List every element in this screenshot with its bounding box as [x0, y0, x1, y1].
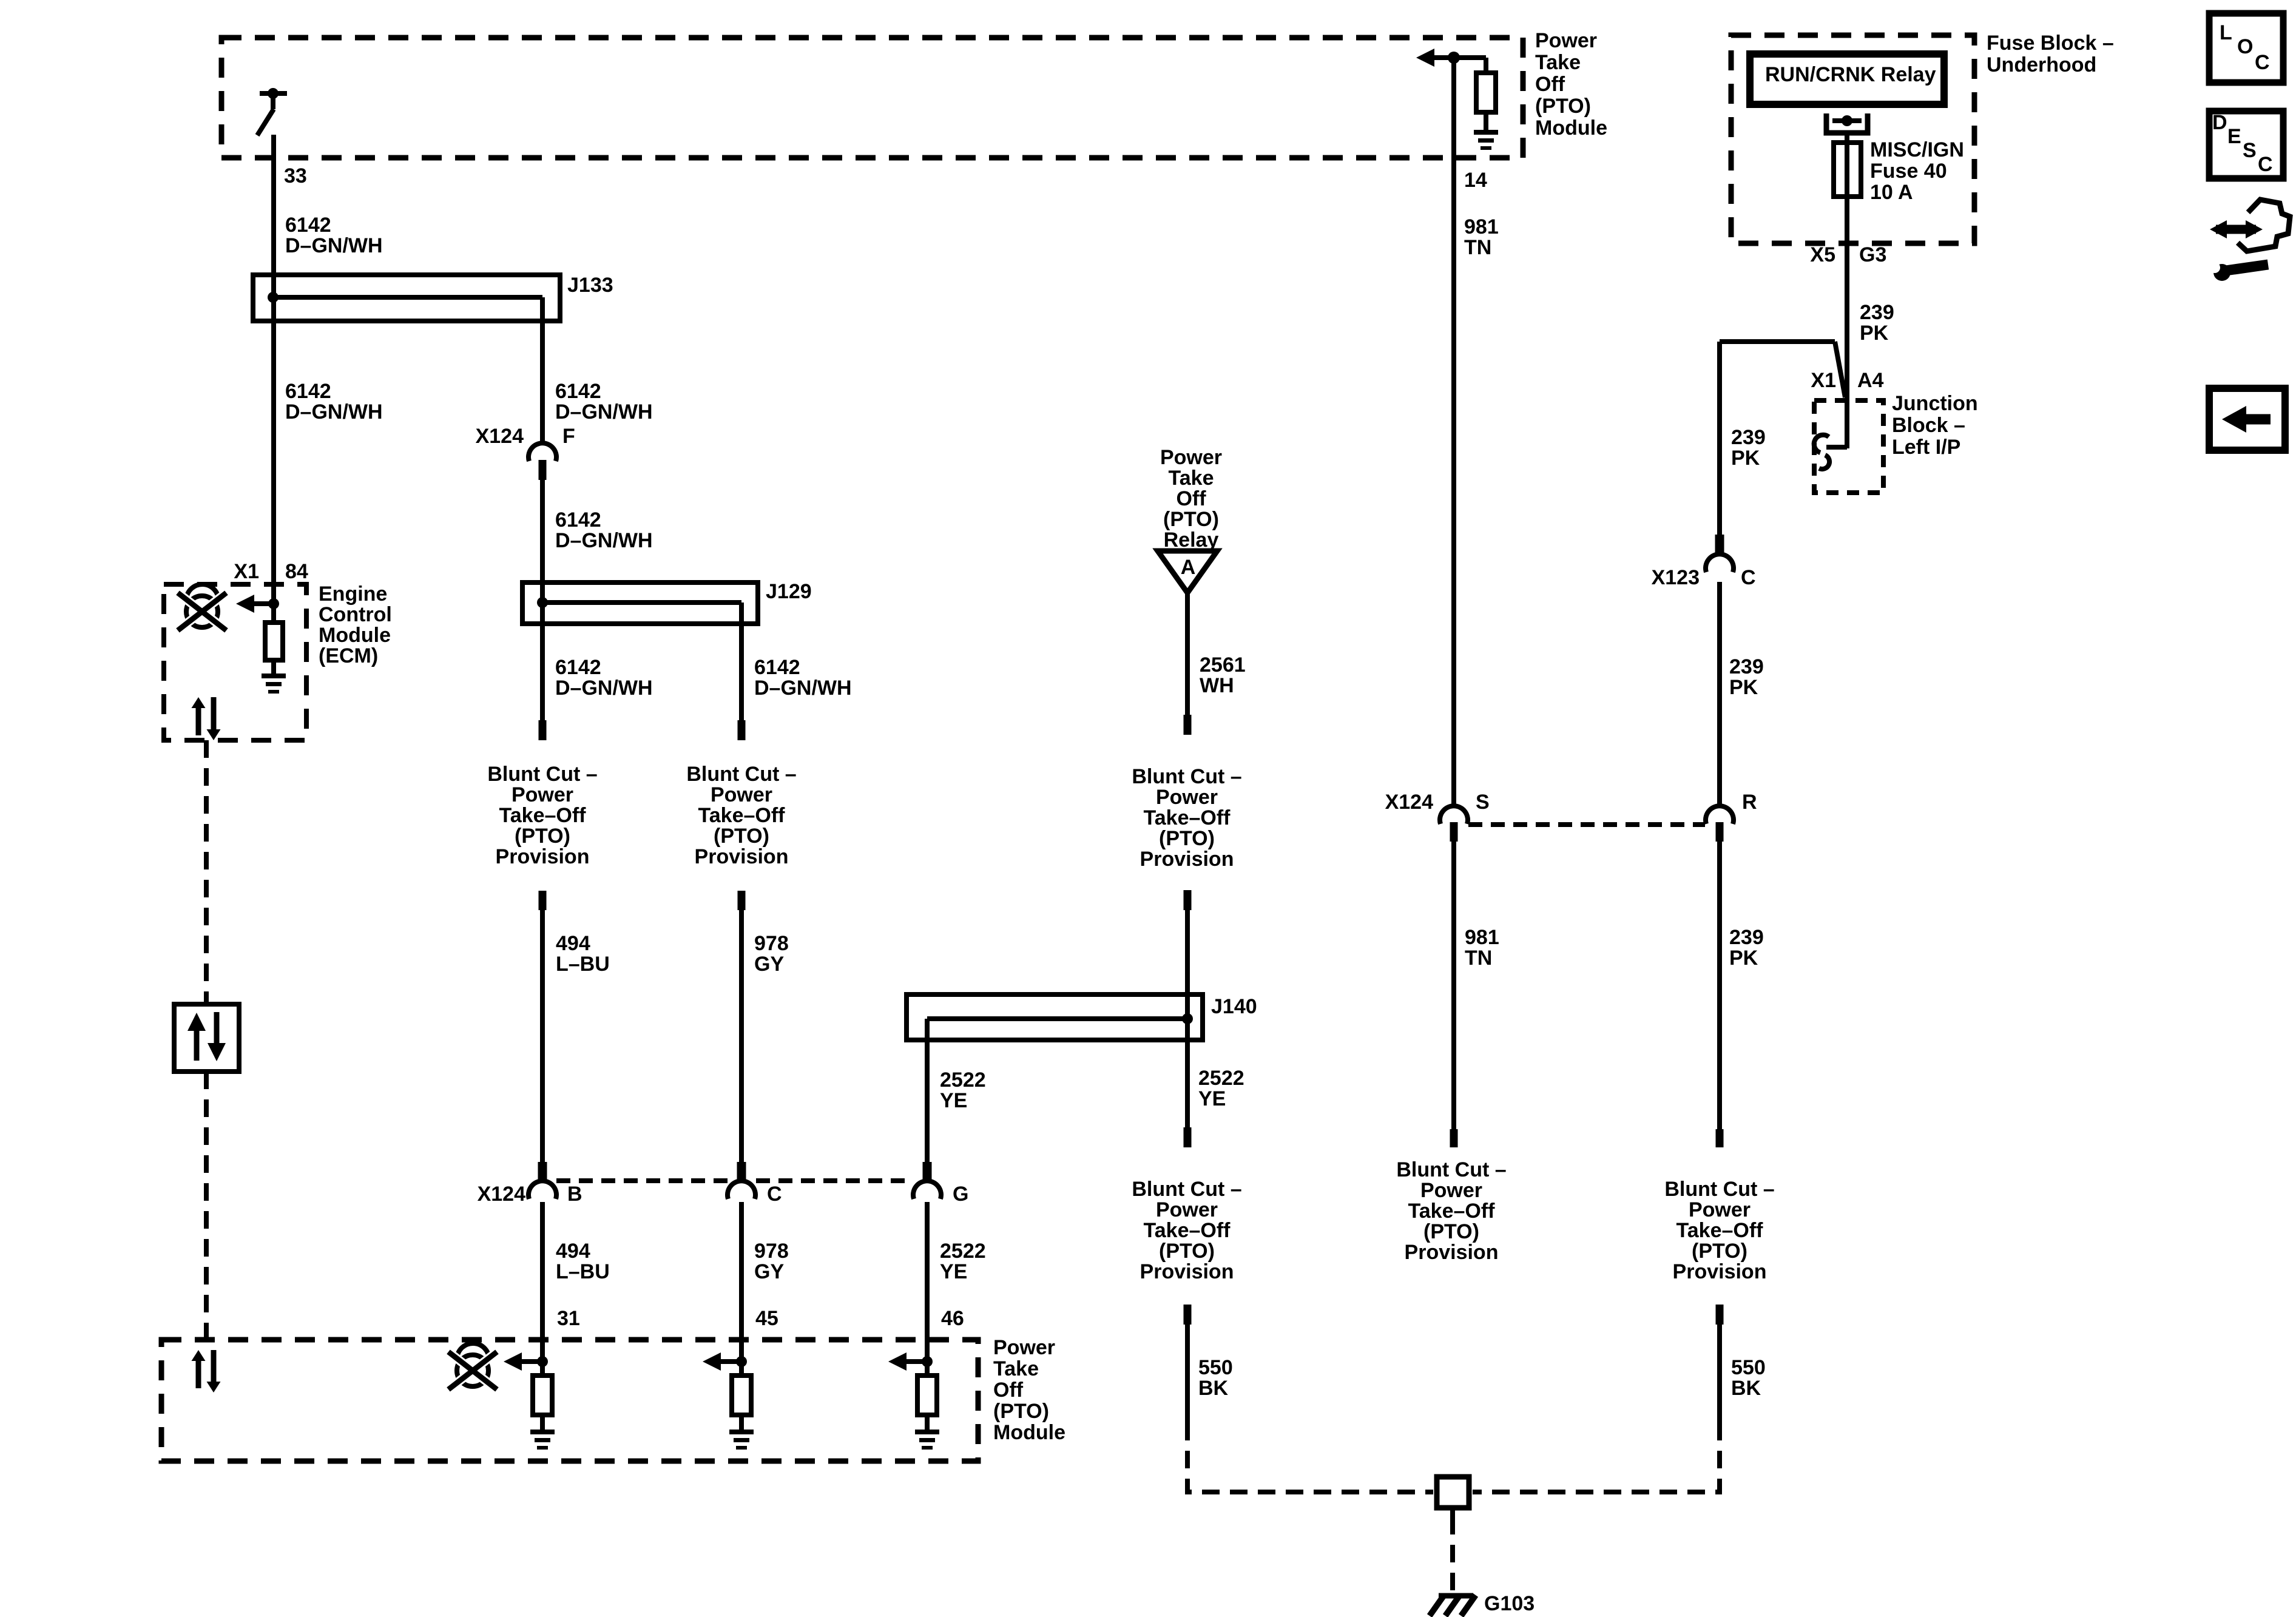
- svg-text:Power: Power: [1156, 1198, 1218, 1221]
- svg-text:B: B: [567, 1183, 582, 1206]
- svg-text:Provision: Provision: [1673, 1260, 1767, 1283]
- svg-text:Blunt Cut –: Blunt Cut –: [686, 763, 796, 786]
- svg-text:Blunt Cut –: Blunt Cut –: [1132, 1178, 1241, 1201]
- svg-text:F: F: [562, 425, 575, 448]
- svg-text:Blunt Cut –: Blunt Cut –: [1396, 1158, 1506, 1181]
- svg-text:PK: PK: [1729, 676, 1758, 699]
- svg-text:Provision: Provision: [1140, 848, 1234, 871]
- svg-text:PK: PK: [1860, 322, 1889, 345]
- svg-text:84: 84: [285, 560, 308, 583]
- svg-text:Power: Power: [711, 783, 772, 806]
- svg-text:D–GN/WH: D–GN/WH: [285, 234, 383, 257]
- svg-text:A4: A4: [1857, 369, 1884, 392]
- svg-text:D: D: [2212, 111, 2227, 134]
- svg-text:33: 33: [284, 164, 307, 187]
- svg-text:Take–Off: Take–Off: [1408, 1200, 1496, 1223]
- svg-text:Provision: Provision: [496, 845, 590, 868]
- svg-text:C: C: [1741, 566, 1756, 589]
- svg-text:D–GN/WH: D–GN/WH: [555, 400, 653, 424]
- svg-text:6142: 6142: [555, 508, 601, 532]
- svg-text:Take–Off: Take–Off: [499, 804, 587, 827]
- svg-text:239: 239: [1731, 426, 1766, 449]
- svg-text:BK: BK: [1198, 1377, 1229, 1400]
- svg-text:C: C: [2255, 51, 2270, 74]
- svg-text:RUN/CRNK Relay: RUN/CRNK Relay: [1765, 63, 1936, 86]
- svg-text:J133: J133: [567, 274, 613, 297]
- svg-text:Take–Off: Take–Off: [1144, 806, 1231, 829]
- svg-text:Module: Module: [993, 1421, 1065, 1444]
- svg-text:C: C: [2258, 153, 2273, 176]
- svg-text:239: 239: [1729, 655, 1764, 678]
- svg-text:C: C: [767, 1183, 782, 1206]
- svg-text:YE: YE: [940, 1260, 967, 1283]
- svg-text:6142: 6142: [285, 380, 331, 403]
- svg-text:Junction: Junction: [1892, 392, 1978, 415]
- svg-text:46: 46: [941, 1307, 964, 1330]
- svg-text:494: 494: [556, 932, 590, 955]
- svg-text:2561: 2561: [1200, 653, 1246, 677]
- svg-text:R: R: [1742, 791, 1757, 814]
- svg-text:Power: Power: [1160, 446, 1222, 469]
- svg-text:YE: YE: [1198, 1087, 1226, 1110]
- svg-text:Off: Off: [1535, 73, 1565, 96]
- svg-text:31: 31: [557, 1307, 580, 1330]
- svg-text:14: 14: [1464, 169, 1487, 192]
- svg-text:X5: X5: [1810, 243, 1835, 266]
- svg-text:X124: X124: [1385, 791, 1433, 814]
- svg-text:J129: J129: [766, 580, 812, 603]
- svg-text:X124: X124: [476, 425, 524, 448]
- svg-text:WH: WH: [1200, 674, 1234, 697]
- svg-text:L: L: [2220, 21, 2232, 44]
- svg-text:Power: Power: [993, 1336, 1055, 1359]
- svg-text:6142: 6142: [555, 656, 601, 679]
- svg-text:6142: 6142: [285, 214, 331, 237]
- svg-text:X1: X1: [1811, 369, 1836, 392]
- svg-text:GY: GY: [754, 953, 784, 976]
- svg-text:2522: 2522: [940, 1240, 986, 1263]
- svg-text:2522: 2522: [940, 1068, 986, 1092]
- svg-text:(PTO): (PTO): [1423, 1220, 1479, 1243]
- svg-text:Off: Off: [1176, 487, 1206, 510]
- svg-text:Module: Module: [319, 624, 391, 647]
- svg-text:G: G: [953, 1183, 968, 1206]
- svg-text:550: 550: [1731, 1356, 1766, 1379]
- svg-text:(PTO): (PTO): [515, 825, 570, 848]
- svg-text:Control: Control: [319, 603, 392, 626]
- svg-text:O: O: [2237, 35, 2253, 58]
- svg-text:6142: 6142: [555, 380, 601, 403]
- svg-text:X124: X124: [478, 1183, 525, 1206]
- svg-text:Fuse 40: Fuse 40: [1870, 160, 1947, 183]
- svg-text:6142: 6142: [754, 656, 800, 679]
- svg-text:Provision: Provision: [1140, 1260, 1234, 1283]
- svg-text:(PTO): (PTO): [1535, 95, 1591, 118]
- svg-text:(PTO): (PTO): [1159, 827, 1215, 850]
- svg-text:Off: Off: [993, 1379, 1024, 1402]
- svg-text:X1: X1: [234, 560, 259, 583]
- svg-text:TN: TN: [1464, 236, 1491, 259]
- svg-text:S: S: [2243, 139, 2257, 162]
- svg-text:Power: Power: [512, 783, 573, 806]
- svg-text:(PTO): (PTO): [714, 825, 769, 848]
- svg-text:X123: X123: [1652, 566, 1700, 589]
- svg-text:Blunt Cut –: Blunt Cut –: [1664, 1178, 1774, 1201]
- svg-text:978: 978: [754, 1240, 789, 1263]
- svg-text:(PTO): (PTO): [1163, 508, 1219, 531]
- svg-text:BK: BK: [1731, 1377, 1761, 1400]
- svg-text:L–BU: L–BU: [556, 953, 610, 976]
- svg-text:981: 981: [1465, 926, 1499, 949]
- svg-text:Take–Off: Take–Off: [1676, 1219, 1764, 1242]
- svg-text:494: 494: [556, 1240, 590, 1263]
- svg-text:A: A: [1181, 556, 1196, 579]
- svg-text:239: 239: [1729, 926, 1764, 949]
- svg-text:981: 981: [1464, 215, 1499, 238]
- svg-text:Take: Take: [1169, 467, 1214, 490]
- svg-text:Provision: Provision: [1405, 1241, 1499, 1264]
- svg-text:550: 550: [1198, 1356, 1233, 1379]
- svg-text:D–GN/WH: D–GN/WH: [555, 529, 653, 552]
- svg-text:G103: G103: [1484, 1592, 1535, 1615]
- svg-text:L–BU: L–BU: [556, 1260, 610, 1283]
- svg-text:G3: G3: [1859, 243, 1886, 266]
- svg-text:E: E: [2227, 125, 2241, 148]
- svg-text:Take–Off: Take–Off: [698, 804, 786, 827]
- svg-text:Engine: Engine: [319, 582, 387, 606]
- svg-text:978: 978: [754, 932, 789, 955]
- svg-text:MISC/IGN: MISC/IGN: [1870, 138, 1964, 161]
- svg-text:10 A: 10 A: [1870, 181, 1913, 204]
- svg-text:D–GN/WH: D–GN/WH: [555, 677, 653, 700]
- svg-text:Take: Take: [993, 1357, 1039, 1380]
- svg-text:S: S: [1476, 791, 1490, 814]
- svg-text:Module: Module: [1535, 116, 1607, 140]
- svg-text:45: 45: [755, 1307, 778, 1330]
- svg-text:Power: Power: [1689, 1198, 1751, 1221]
- svg-text:YE: YE: [940, 1089, 967, 1112]
- svg-text:Blunt Cut –: Blunt Cut –: [487, 763, 597, 786]
- svg-text:239: 239: [1860, 301, 1894, 324]
- svg-text:Underhood: Underhood: [1987, 53, 2096, 76]
- svg-text:Power: Power: [1535, 29, 1597, 52]
- svg-text:Fuse Block –: Fuse Block –: [1987, 32, 2114, 55]
- svg-text:PK: PK: [1729, 947, 1758, 970]
- svg-text:Block –: Block –: [1892, 414, 1965, 437]
- svg-text:PK: PK: [1731, 447, 1760, 470]
- svg-text:Take: Take: [1535, 51, 1581, 74]
- svg-text:TN: TN: [1465, 947, 1492, 970]
- svg-text:D–GN/WH: D–GN/WH: [285, 400, 383, 424]
- svg-text:Blunt Cut –: Blunt Cut –: [1132, 765, 1241, 788]
- svg-text:GY: GY: [754, 1260, 784, 1283]
- svg-text:(PTO): (PTO): [1692, 1240, 1747, 1263]
- svg-text:D–GN/WH: D–GN/WH: [754, 677, 852, 700]
- svg-text:Power: Power: [1420, 1179, 1482, 1202]
- svg-text:Power: Power: [1156, 786, 1218, 809]
- svg-text:J140: J140: [1211, 995, 1257, 1018]
- svg-text:(PTO): (PTO): [993, 1400, 1049, 1423]
- svg-text:Provision: Provision: [695, 845, 789, 868]
- svg-text:Left I/P: Left I/P: [1892, 436, 1960, 459]
- svg-text:(PTO): (PTO): [1159, 1240, 1215, 1263]
- svg-text:2522: 2522: [1198, 1067, 1244, 1090]
- svg-text:Relay: Relay: [1164, 528, 1219, 552]
- svg-text:(ECM): (ECM): [319, 644, 378, 667]
- svg-text:Take–Off: Take–Off: [1144, 1219, 1231, 1242]
